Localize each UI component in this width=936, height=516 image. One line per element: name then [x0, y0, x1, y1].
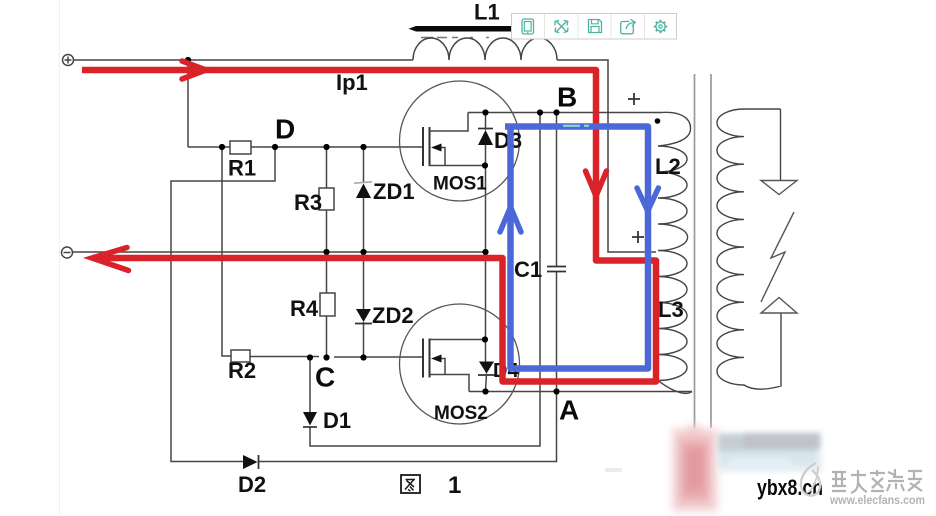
toolbar icon save [589, 20, 602, 33]
diode D3 body diode [478, 113, 493, 166]
wire ZD1/ZD2 vertical [363, 147, 365, 358]
transformer core lines [695, 74, 712, 428]
svg-text:C1: C1 [514, 257, 542, 282]
wire R3/R4 vertical [326, 147, 328, 358]
watermark elecfans logo [801, 463, 820, 496]
svg-text:B: B [557, 82, 577, 113]
resistor R3 [319, 188, 334, 210]
svg-text:ZD1: ZD1 [373, 179, 415, 204]
wire blue current path [500, 127, 658, 369]
wire D2 branch to A [258, 392, 557, 462]
terminal minus output [62, 247, 73, 258]
inductor L1 core bar [409, 26, 515, 32]
faint gray dash [605, 468, 622, 472]
toolbar icon gear [654, 20, 667, 33]
inductor L2 and L3 primary winding [658, 112, 692, 393]
toolbar icon mobile [522, 19, 534, 34]
wire A rail [469, 391, 692, 393]
svg-text:R3: R3 [294, 190, 322, 215]
svg-text:R1: R1 [228, 156, 256, 181]
watermark chinese brand text [832, 469, 922, 493]
wire secondary output top [780, 109, 782, 180]
SCHEMATIC [59, 0, 61, 516]
op-amp MOS1 mosfet [400, 81, 520, 201]
wire vertical from top junction to R1 rail [187, 60, 189, 147]
transistor MOS2 mosfet [400, 304, 520, 424]
node plus polarity L3 [632, 231, 644, 243]
terminal plus input [63, 55, 74, 66]
wire red current path Ip1 [82, 61, 656, 382]
wire L1 output to center tap [557, 60, 656, 252]
resistor R4 [320, 293, 335, 316]
svg-text:MOS1: MOS1 [433, 174, 487, 195]
svg-text:R4: R4 [290, 296, 319, 321]
inductor L1 dashed core remnant [421, 37, 489, 39]
svg-text:D2: D2 [238, 472, 266, 497]
svg-text:R2: R2 [228, 358, 256, 383]
watermark blue-gray blur [718, 432, 822, 472]
wire D1 branch C to B [310, 113, 540, 447]
secondary output down arrow [761, 181, 797, 195]
svg-text:L1: L1 [474, 0, 500, 25]
wire top supply [74, 59, 414, 61]
svg-text:ZD2: ZD2 [372, 303, 414, 328]
wire B rail [468, 112, 661, 114]
wire MOS1 source to minus rail to MOS2 [485, 166, 487, 340]
node plus polarity L2 [628, 93, 640, 105]
svg-text:C: C [315, 362, 335, 393]
svg-text:Ip1: Ip1 [336, 70, 368, 95]
node polarity dot L2 [655, 118, 661, 124]
watermark pink blur [672, 425, 718, 512]
diode D4 body diode [478, 340, 495, 392]
wire C rail (gate rail of MOS2) [250, 356, 422, 359]
inductor L1 coil [413, 38, 557, 60]
svg-text:L2: L2 [655, 154, 681, 179]
inductor secondary winding [717, 109, 781, 389]
resistor R1 [230, 141, 251, 154]
capacitor C1 [547, 267, 566, 272]
wire R1-R2 vertical [222, 147, 231, 356]
lightning spark symbol [761, 212, 794, 302]
wire C1 branch B to A [556, 113, 558, 392]
zener diode ZD2 [355, 309, 372, 324]
wire node D step down-left [171, 147, 275, 462]
toolbar icon expand [555, 20, 568, 32]
watermark dash inside blue wire [563, 125, 589, 127]
wire minus rail [73, 251, 486, 253]
svg-text:MOS2: MOS2 [434, 403, 488, 424]
wire D rail (gate rail of MOS1) [188, 146, 422, 148]
diode D1 [303, 412, 317, 427]
secondary output up arrow [761, 298, 797, 314]
resistor R2 [231, 350, 250, 362]
toolbar panel [512, 14, 677, 40]
svg-text:L3: L3 [658, 297, 684, 322]
svg-text:www.elecfans.com: www.elecfans.com [829, 495, 925, 507]
toolbar icon share [621, 19, 636, 34]
zener diode ZD1 [354, 182, 372, 198]
svg-text:A: A [559, 395, 579, 426]
figure caption [401, 472, 461, 499]
svg-text:D1: D1 [323, 408, 351, 433]
svg-text:D: D [275, 114, 295, 145]
diode D2 [243, 455, 259, 469]
svg-text:1: 1 [448, 472, 461, 499]
